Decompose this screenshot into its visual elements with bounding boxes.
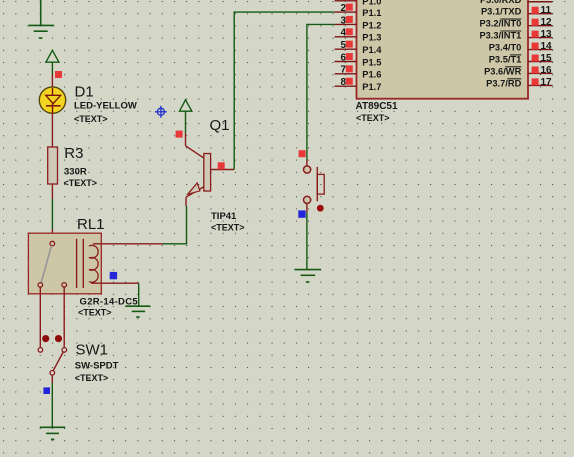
- svg-text:P1.2: P1.2: [362, 20, 381, 30]
- pin 10 (P3.0/RXD): [480, 0, 553, 5]
- red pin marker (button top): [299, 150, 306, 157]
- svg-text:SW1: SW1: [76, 342, 109, 359]
- pin wire LED to R3: [51, 113, 53, 147]
- relay coil top lead: [93, 243, 163, 245]
- relay switch lever: [41, 246, 51, 283]
- svg-text:8: 8: [340, 77, 346, 88]
- svg-text:3: 3: [340, 15, 346, 26]
- switch SW1 pole circle: [50, 371, 55, 376]
- svg-text:P1.6: P1.6: [362, 70, 381, 80]
- svg-text:D1: D1: [75, 84, 94, 101]
- transistor Q1: [186, 133, 235, 197]
- svg-text:P1.4: P1.4: [362, 45, 382, 55]
- svg-text:6: 6: [340, 52, 346, 63]
- relay coil core bars: [76, 239, 78, 288]
- svg-text:P3.2/INT0: P3.2/INT0: [479, 19, 521, 29]
- button origin dot: [317, 205, 324, 212]
- blue crosshair marker: [155, 106, 167, 118]
- wire P1.2 to button: [307, 24, 335, 160]
- svg-text:P1.3: P1.3: [362, 33, 381, 43]
- svg-text:5: 5: [340, 40, 346, 51]
- relay pin to SW1 right: [63, 287, 65, 347]
- blue square marker (SW1): [43, 387, 50, 394]
- svg-text:4: 4: [340, 28, 346, 39]
- overbar T1: [510, 54, 521, 56]
- wire P1.1 to Q1 base: [234, 12, 334, 169]
- ground (relay): [125, 306, 150, 317]
- svg-text:<TEXT>: <TEXT>: [356, 113, 390, 123]
- power symbol (above Q1): [180, 100, 192, 133]
- pin 13 (P3.3/INT1): [479, 29, 552, 41]
- pin 3 (P1.2): [335, 15, 382, 30]
- svg-text:330R: 330R: [64, 167, 87, 178]
- svg-text:<TEXT>: <TEXT>: [74, 114, 108, 124]
- pin 8 (P1.7): [335, 77, 382, 92]
- ground (top-left): [28, 0, 54, 38]
- svg-text:P1.7: P1.7: [362, 82, 381, 92]
- svg-text:11: 11: [541, 5, 552, 16]
- blue square marker (relay): [110, 272, 117, 279]
- svg-text:LED-YELLOW: LED-YELLOW: [74, 101, 137, 112]
- pin 15 (P3.5/T1): [489, 53, 553, 65]
- button top pin: [306, 160, 308, 166]
- svg-text:<TEXT>: <TEXT>: [64, 178, 98, 188]
- switch SW1 terminal (right): [62, 348, 67, 353]
- svg-text:P3.3/INT1: P3.3/INT1: [479, 31, 521, 41]
- red pin marker (Q1 base): [218, 162, 225, 169]
- pin 17 (P3.7/RD): [486, 77, 552, 89]
- svg-text:<TEXT>: <TEXT>: [78, 308, 112, 318]
- IC U1 AT89C51 body: [357, 0, 529, 99]
- overbar INT1: [500, 30, 521, 32]
- relay coil bottom lead: [91, 282, 139, 284]
- red pin marker (power-LED junction): [55, 71, 62, 78]
- svg-text:14: 14: [541, 41, 553, 52]
- blue square marker (button): [298, 210, 305, 217]
- relay switch common circle: [50, 241, 55, 246]
- svg-text:P3.1/TXD: P3.1/TXD: [481, 7, 522, 17]
- svg-text:G2R-14-DC5: G2R-14-DC5: [80, 296, 139, 307]
- power symbol (above D1): [46, 50, 59, 74]
- relay contact circle (NC): [38, 283, 43, 288]
- pin 7 (P1.6): [335, 65, 382, 80]
- pin wire power to LED: [51, 75, 53, 88]
- svg-text:P3.6/WR: P3.6/WR: [484, 66, 521, 76]
- pin 6 (P1.5): [335, 52, 382, 67]
- pin 4 (P1.3): [335, 28, 382, 43]
- LED D1: [39, 87, 65, 113]
- resistor R3: [48, 147, 58, 184]
- switch SW1 terminal (left): [38, 348, 43, 353]
- overbar INT0: [500, 18, 521, 20]
- svg-text:<TEXT>: <TEXT>: [211, 223, 245, 233]
- SW1 origin dot (right): [55, 335, 62, 342]
- wire coil to ground: [138, 283, 140, 306]
- svg-text:P1.0: P1.0: [362, 0, 381, 7]
- switch SW1 lever: [53, 352, 63, 371]
- svg-text:P3.0/RXD: P3.0/RXD: [480, 0, 522, 5]
- pin 12 (P3.2/INT0): [479, 17, 552, 29]
- svg-text:P3.7/RD: P3.7/RD: [486, 78, 521, 88]
- ground (SW1): [40, 427, 65, 439]
- svg-text:P3.4/T0: P3.4/T0: [489, 43, 522, 53]
- overbar RD: [507, 78, 521, 80]
- relay contact circle (NO): [62, 283, 67, 288]
- wire R3 to relay: [51, 184, 53, 199]
- svg-text:<TEXT>: <TEXT>: [75, 373, 109, 383]
- wire coil to Q1 emitter: [163, 243, 187, 245]
- pin 5 (P1.4): [335, 40, 383, 55]
- svg-text:7: 7: [340, 65, 346, 76]
- relay coil loops: [89, 245, 98, 282]
- relay pin to SW1 left: [39, 287, 41, 347]
- svg-text:P3.5/T1: P3.5/T1: [489, 55, 522, 65]
- svg-text:AT89C51: AT89C51: [356, 101, 398, 112]
- wire SW1 to ground: [51, 375, 53, 383]
- svg-text:RL1: RL1: [77, 216, 105, 233]
- svg-text:TIP41: TIP41: [211, 211, 237, 222]
- SW1 origin dot (left): [42, 335, 49, 342]
- svg-text:16: 16: [541, 65, 553, 76]
- svg-text:2: 2: [340, 3, 346, 14]
- svg-text:Q1: Q1: [210, 117, 230, 134]
- pin 1 (P1.0): [335, 0, 382, 7]
- red pin marker (Q1 collector): [176, 131, 183, 138]
- svg-text:SW-SPDT: SW-SPDT: [75, 361, 119, 372]
- svg-text:12: 12: [541, 17, 553, 28]
- wire Q1 emitter down to coil: [185, 197, 187, 206]
- svg-text:15: 15: [541, 53, 553, 64]
- relay RL1 box: [28, 233, 101, 294]
- svg-text:13: 13: [541, 29, 553, 40]
- pin 16 (P3.6/WR): [484, 65, 552, 77]
- svg-text:R3: R3: [64, 145, 83, 162]
- svg-text:P1.5: P1.5: [362, 57, 381, 67]
- pin 2 (P1.1): [335, 3, 382, 18]
- pin 14 (P3.4/T0): [489, 41, 553, 53]
- svg-text:P1.1: P1.1: [362, 8, 381, 18]
- overbar WR: [505, 66, 521, 68]
- button bottom pin / wire to ground: [306, 203, 308, 212]
- ground (button): [294, 270, 321, 282]
- pin 11 (P3.1/TXD): [481, 5, 553, 17]
- svg-text:17: 17: [541, 77, 553, 88]
- button: [304, 166, 325, 204]
